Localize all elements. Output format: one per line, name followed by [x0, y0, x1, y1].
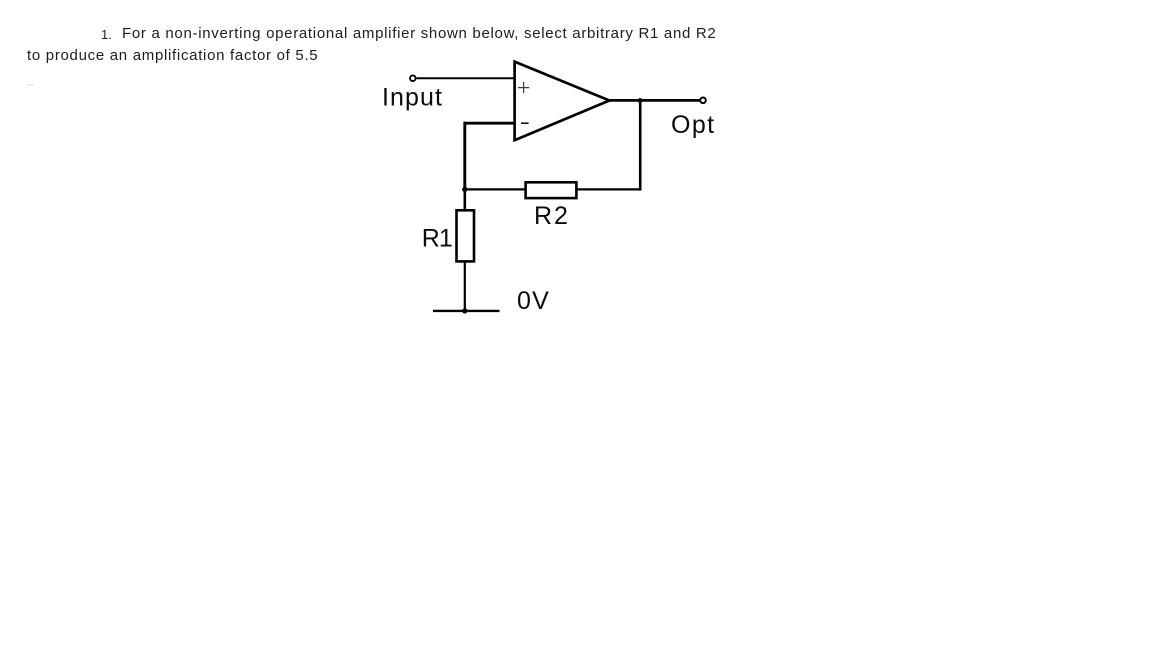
question number 1. — [101, 27, 112, 42]
terminal Opt (open circle) — [700, 98, 706, 104]
svg-text:0V: 0V — [517, 287, 550, 315]
terminal Input (open circle) — [410, 75, 416, 81]
wire input to op-amp + pin — [417, 77, 514, 79]
op-amp - input marking — [521, 122, 529, 124]
node feedback junction dot — [462, 187, 467, 192]
wire node to R1 top — [463, 189, 466, 211]
node output junction dot — [638, 98, 643, 103]
op-amp U1 triangle — [515, 62, 610, 141]
wire R2 left lead — [464, 188, 526, 190]
svg-text:R2: R2 — [534, 202, 570, 230]
ground 0V rail — [433, 310, 500, 312]
svg-text:Opt: Opt — [671, 111, 716, 139]
resistor R2 body — [526, 182, 577, 198]
node ground junction dot — [462, 308, 467, 313]
wire R1 bottom to ground — [464, 261, 466, 311]
faint smudge artifact — [26, 84, 34, 86]
op-amp + input marking — [518, 82, 529, 93]
wire inverting input horizontal — [464, 122, 514, 125]
resistor R1 body — [457, 210, 475, 261]
wire op-amp output — [609, 99, 701, 102]
question text line 1 — [122, 25, 716, 42]
svg-text:Input: Input — [382, 83, 443, 111]
wire feedback vertical from output — [639, 100, 642, 190]
question text line 2 — [27, 47, 318, 64]
wire inverting vertical down to feedback node — [463, 122, 466, 190]
wire R2 right lead — [577, 188, 642, 190]
svg-text:R1: R1 — [422, 224, 452, 252]
